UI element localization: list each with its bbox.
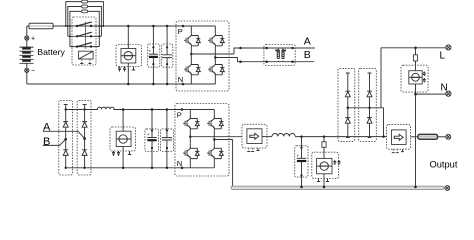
- sensor T1 ground caps: [118, 67, 135, 72]
- transformer TX1 dashed box: [264, 45, 295, 66]
- fuse F2 (sensor branch): [322, 137, 326, 154]
- svg-text:+: +: [31, 36, 35, 43]
- diode D7: [82, 122, 87, 128]
- varistor chain Z1: [346, 73, 350, 138]
- svg-text:+: +: [297, 153, 300, 158]
- capacitor C5 (output, electrolytic): [295, 137, 308, 187]
- contactor row wires: [68, 36, 102, 46]
- wire: stage2 top rail: [66, 109, 182, 111]
- wire: DC+ from fuse to contactor: [53, 25, 183, 27]
- varistor chain Z2: [368, 73, 372, 138]
- svg-text:L: L: [440, 50, 446, 61]
- junction dots DC link 1: [127, 25, 168, 86]
- IGBT Q1 with diode D1: [184, 31, 200, 47]
- precharge resistor R3: [82, 10, 88, 13]
- wire: stage2 bottom rail: [66, 167, 182, 169]
- IGBT Q8 with diode D12: [207, 144, 223, 160]
- svg-text:Battery: Battery: [37, 47, 65, 57]
- rectifier chain 2: [83, 105, 87, 170]
- terminal Output neutral: [445, 186, 450, 191]
- diode D16: [367, 118, 372, 124]
- svg-text:Output: Output: [430, 159, 458, 169]
- contactor K1 dashed box: [72, 17, 96, 65]
- svg-text:+: +: [149, 49, 152, 54]
- precharge loop 1: [66, 2, 104, 26]
- node N1: [182, 83, 185, 86]
- svg-text:P: P: [177, 111, 182, 120]
- capacitor C4 (film): [160, 110, 173, 168]
- svg-text:−: −: [31, 68, 35, 75]
- battery BT1: [20, 26, 34, 84]
- svg-text:N: N: [441, 82, 448, 93]
- svg-text:P: P: [178, 27, 183, 36]
- transformer TX1 windings: [265, 47, 293, 63]
- relay module RL1 (inverter output): [242, 124, 267, 151]
- terminal Output live: [446, 134, 451, 139]
- wire: transformer secondary to B: [293, 61, 314, 63]
- sensor T2 ground caps: [112, 151, 131, 156]
- contact S2 blade: [77, 32, 92, 36]
- wire: DC- rail battery to inverter1: [27, 83, 183, 85]
- inverter U1 dashed box: [176, 21, 229, 91]
- wire: U1 P rail: [183, 26, 215, 31]
- svg-text:B: B: [304, 49, 311, 61]
- wire: bypass L input: [381, 47, 446, 49]
- inductor L1: [97, 107, 114, 109]
- diode D14: [345, 118, 350, 124]
- fuse F1 (battery): [27, 23, 53, 29]
- wire: U2 N rail: [182, 160, 214, 168]
- capacitor C3 (electrolytic): [145, 110, 159, 168]
- inverter U2 dashed box: [175, 104, 229, 177]
- wire: output live: [295, 136, 386, 138]
- relay module RL2 (bypass static switch): [387, 125, 411, 153]
- current sensor T1 (DC) dashed box: [116, 26, 142, 84]
- current sensor T3 dashed box: [312, 152, 339, 186]
- neutral bus bar: [231, 186, 444, 189]
- terminal N: [446, 91, 451, 96]
- contact linkage: [84, 22, 86, 49]
- IGBT Q5 with diode D9: [183, 114, 199, 130]
- sensor T3 ground caps: [317, 160, 341, 182]
- node N2: [181, 167, 184, 170]
- wire: U1 output to transformer: [234, 48, 267, 62]
- IGBT Q2 with diode D2: [208, 31, 224, 47]
- precharge resistor R2: [82, 5, 88, 8]
- IGBT Q3 with diode D3: [184, 60, 200, 76]
- wire: U2 leg midpoints: [190, 130, 242, 144]
- IGBT Q6 with diode D10: [207, 114, 223, 130]
- node P1: [182, 25, 185, 28]
- wire: surge rail to bypass: [348, 48, 384, 137]
- rectifier chain 1: [64, 105, 68, 170]
- wire: U1 leg midpoints: [191, 47, 237, 60]
- rectifier module dashed box 1: [59, 100, 73, 175]
- contact S3 blade: [77, 43, 92, 47]
- diode D13: [345, 91, 350, 97]
- surge protection module Z1 dashed box: [338, 68, 355, 141]
- rectifier module dashed box 2: [77, 100, 91, 175]
- svg-text:A: A: [304, 36, 311, 48]
- svg-text:B: B: [43, 136, 50, 148]
- wire: U1 N rail: [183, 76, 215, 84]
- svg-text:+: +: [147, 132, 150, 137]
- precharge resistor R1: [82, 0, 88, 3]
- diode D8: [82, 150, 87, 156]
- IGBT Q4 with diode D4: [208, 60, 224, 76]
- wire: B input: [43, 139, 66, 145]
- capacitor C1 (electrolytic): [148, 26, 160, 84]
- contactor coil K1: [79, 51, 94, 63]
- wire: A input: [43, 131, 85, 138]
- surge protection module Z2 dashed box: [359, 68, 377, 141]
- terminal L: [446, 45, 451, 50]
- node P2: [181, 108, 184, 111]
- diode D6: [63, 150, 68, 156]
- inductor L2: [272, 134, 295, 137]
- precharge loop 2: [68, 7, 102, 37]
- wire: RL2 to output fuse: [411, 136, 418, 138]
- wire: N line: [416, 93, 446, 95]
- current sensor T2 dashed box: [110, 110, 136, 168]
- EMI filter T4 dashed box: [401, 65, 428, 94]
- diode D15: [367, 91, 372, 97]
- capacitor C2 (film): [162, 26, 173, 84]
- IGBT Q7 with diode D11: [183, 144, 199, 160]
- wire: U2 P rail: [182, 110, 214, 115]
- fuse F4 (output): [418, 134, 438, 139]
- wire: transformer secondary to A: [293, 47, 315, 49]
- diode D5: [63, 122, 68, 128]
- battery negative terminal: [25, 68, 35, 75]
- junction dots stage2 rails: [122, 108, 168, 169]
- battery positive terminal: [25, 36, 35, 43]
- contact S1 blade: [77, 22, 92, 26]
- precharge loop 3: [70, 11, 99, 46]
- wire: U2 lower output to neutral bus: [232, 140, 234, 187]
- fuse F3 (bypass): [413, 48, 417, 65]
- junction dots contactor rows: [65, 25, 105, 48]
- wire: neutral drop to bus: [415, 94, 417, 186]
- wire: RL1 to inductor L2: [262, 136, 272, 138]
- svg-text:N: N: [178, 75, 183, 84]
- wire: fuse to output terminal: [438, 136, 446, 138]
